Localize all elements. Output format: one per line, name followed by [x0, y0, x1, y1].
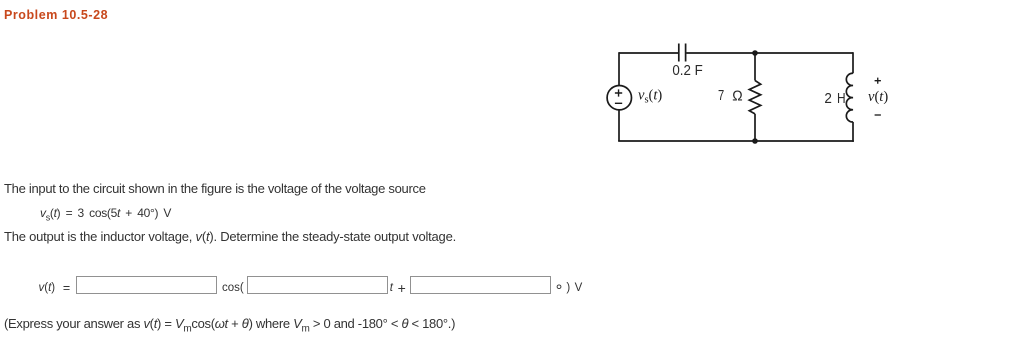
svg-text:vs(t): vs(t)	[638, 88, 662, 106]
title Problem 10.5-28	[4, 9, 108, 22]
answer input box 1 (amplitude)	[76, 276, 217, 294]
paragraph line 1	[4, 182, 426, 195]
wire: top segment from capacitor to node	[686, 52, 853, 54]
minus sign inside source	[615, 102, 622, 104]
svg-text:v(t): v(t)	[868, 89, 888, 105]
node dot top (junction)	[752, 50, 758, 56]
node dot bottom (junction)	[752, 138, 758, 144]
note line	[4, 317, 455, 336]
svg-text:7: 7	[718, 87, 724, 104]
wire: top left segment from source branch to capacitor	[619, 52, 678, 54]
svg-text:0.2 F: 0.2 F	[672, 63, 703, 79]
answer input box 3 (phase)	[410, 276, 551, 294]
plus sign inside source	[615, 89, 622, 96]
wire: right vertical above inductor	[852, 52, 854, 73]
wire: left vertical below source	[618, 110, 620, 141]
wire: middle branch above resistor	[754, 53, 756, 81]
answer row: v(t) = [box] cos( [box] t + [box] deg ) V	[39, 283, 56, 295]
wire: left vertical above source	[618, 52, 620, 85]
wire: bottom horizontal	[618, 140, 854, 142]
polarity plus for v(t)	[875, 78, 881, 84]
capacitor C 0.2F plates	[679, 44, 686, 62]
wire: middle branch below resistor	[754, 114, 756, 141]
svg-text:H: H	[837, 90, 846, 107]
polarity minus for v(t)	[875, 114, 881, 116]
voltage source vs(t) circle	[607, 86, 631, 110]
svg-text:Ω: Ω	[732, 88, 742, 105]
paragraph line 2	[4, 230, 456, 243]
resistor R 7 ohm zigzag	[749, 81, 760, 114]
inductor L 2H coil	[846, 73, 853, 122]
svg-text:2: 2	[824, 90, 832, 107]
equation vs(t) = 3 cos(5t + 40deg) V	[40, 207, 171, 223]
answer input box 2 (frequency)	[247, 276, 388, 294]
wire: right vertical below inductor	[852, 122, 854, 142]
